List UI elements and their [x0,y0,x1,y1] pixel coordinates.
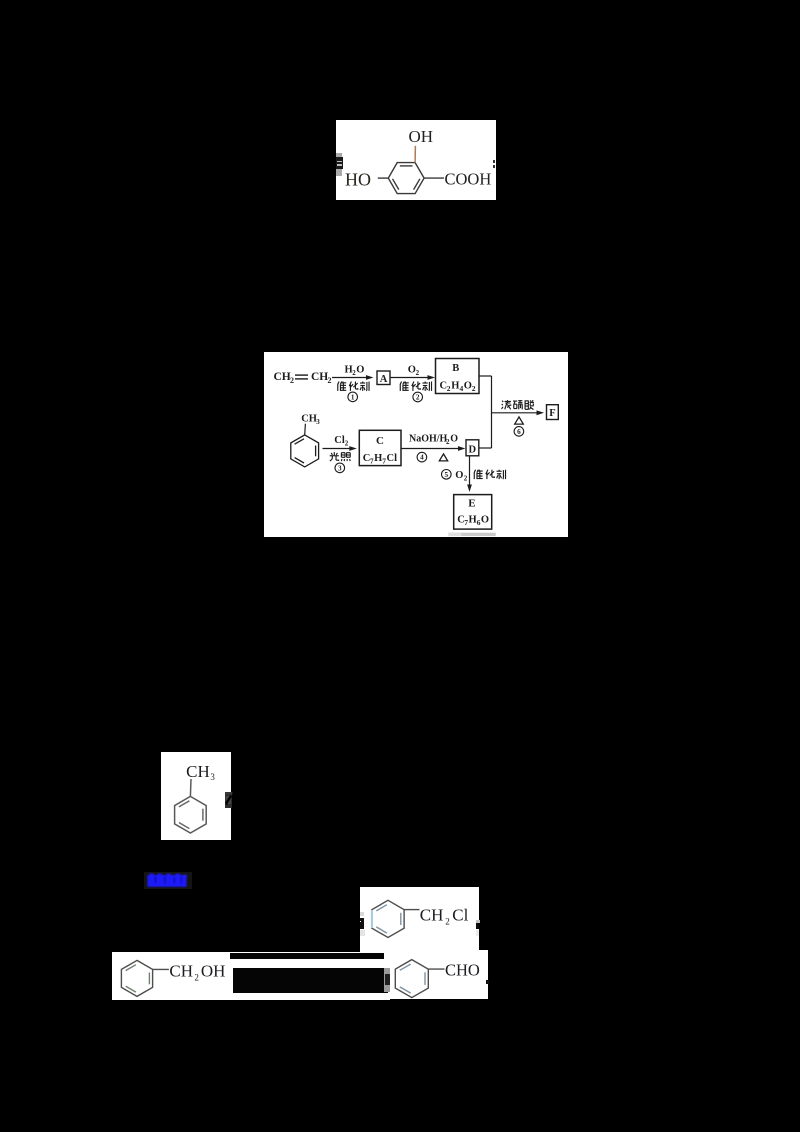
scan fragment right of top box [493,160,495,163]
scan fragments on benzyl chloride box edges [360,912,364,916]
svg-text:Cl: Cl [387,452,398,463]
box C (C7H7Cl) [359,430,401,465]
svg-text:2: 2 [345,439,349,447]
scan fragment (black block with slash) right of toluene box [225,792,232,807]
svg-text:O: O [356,364,364,375]
scan fragment left of top box [336,153,343,177]
svg-text:CH: CH [311,371,328,383]
svg-text:3: 3 [316,417,320,425]
svg-text:O: O [450,433,458,444]
white panel: reaction flowchart [264,352,568,538]
white panel: top molecule (2,4-dihydroxybenzoic acid) [336,120,497,200]
box D [466,439,479,455]
circled 1 [348,392,358,402]
box A [377,371,390,385]
arrow 6 (conc. H2SO4 / heat) to F [492,411,538,413]
svg-text:2: 2 [328,375,332,384]
triangle (heat) [515,416,524,423]
white panel: benzyl chloride [360,887,480,952]
svg-text:O: O [455,470,463,481]
svg-text:1: 1 [351,393,355,401]
arrow 3 (Cl2 / light) [323,447,351,449]
svg-text:2: 2 [416,369,420,377]
label: cui hua ji (catalyst) 3 [474,469,483,478]
arrow 5 (O2 / catalyst) down to E [469,455,471,485]
benzene ring (flowchart toluene) [291,434,319,466]
svg-text:CH: CH [186,762,210,781]
svg-text:A: A [380,373,388,384]
benzene ring (top molecule) [388,163,424,194]
benzene ring (toluene) [174,796,206,833]
black redaction bar 2 [233,968,388,993]
bond ring-CHO [428,968,444,970]
svg-text:6: 6 [517,428,521,436]
circled 4 [417,452,427,462]
circled 6 [514,426,524,436]
svg-text:F: F [549,408,555,419]
bond ring-CH2OH [152,968,168,970]
arrow 4 (NaOH/H2O, heat) [401,447,459,449]
bond CH3-ring [189,779,192,796]
svg-text:HO: HO [345,169,371,189]
svg-text:2: 2 [445,917,450,927]
svg-text:B: B [452,362,459,373]
benzene ring (benzyl alcohol) [121,960,152,996]
svg-text:2: 2 [464,474,468,482]
svg-text:H: H [451,380,459,391]
svg-text:OH: OH [200,961,225,980]
circled 2 [413,392,423,402]
svg-text:O: O [464,380,472,391]
black redaction bar 1 [230,953,384,960]
svg-text:COOH: COOH [445,169,492,188]
svg-text:OH: OH [409,127,434,146]
bond to COOH [424,177,444,179]
box F [547,404,559,419]
label: cui hua ji (catalyst) [338,381,347,390]
light blue scan tint on ring left edge [370,910,372,928]
svg-text:5: 5 [445,470,449,478]
label: guang zhao (light) [330,452,339,461]
svg-text:NaOH/H: NaOH/H [409,433,448,444]
wire from D to junction [479,447,492,449]
svg-text:D: D [469,444,477,455]
benzene ring (benzaldehyde) [395,960,428,998]
white strip with blacked-out text [230,952,390,1000]
svg-text:2: 2 [447,384,451,393]
svg-text:CHO: CHO [445,961,480,980]
bond CH3-ring [304,423,307,434]
bond to HO [378,177,389,179]
svg-text:CH: CH [274,371,291,383]
svg-text:2: 2 [416,393,420,401]
svg-text:3: 3 [338,464,342,472]
svg-text:H: H [374,452,382,463]
scan fragments near benzaldehyde [384,968,391,992]
triangle (heat) [439,453,447,460]
svg-text:O: O [481,514,489,525]
gray scan smudge under box E [448,532,495,535]
box B (C2H4O2) [436,358,480,393]
svg-text:Cl: Cl [452,906,468,925]
white panel: toluene molecule [161,752,232,840]
svg-text:2: 2 [194,972,199,982]
svg-text:E: E [468,497,475,509]
svg-text:Cl: Cl [334,434,345,445]
white panel: benzaldehyde [388,950,488,998]
box E (C7H6O) [454,494,492,528]
circled 3 [335,463,345,473]
svg-text:3: 3 [210,772,215,782]
white panel: benzyl alcohol [112,952,232,1000]
circled 5 [442,469,452,479]
svg-text:C: C [376,435,384,447]
svg-text:CH: CH [419,906,443,925]
svg-text:CH: CH [301,413,317,424]
bond ring-CH2Cl [404,909,419,911]
svg-text:CH: CH [169,961,193,980]
arrow 1 (H2O / catalyst) [332,376,367,378]
arrow 2 (O2 / catalyst) [391,376,429,378]
svg-text:2: 2 [290,375,294,384]
wire from B to junction [479,375,492,377]
benzene ring (benzyl chloride) [371,900,403,937]
dark tag with blue glyphs (answer marker) [144,872,192,889]
svg-text:H: H [469,514,477,525]
svg-text:2: 2 [472,384,476,393]
bond to OH (brownish) [414,146,416,163]
svg-text:4: 4 [420,453,424,461]
label: nong liu suan (conc. sulfuric acid) [502,400,511,409]
label: cui hua ji (catalyst) 2 [400,381,409,390]
